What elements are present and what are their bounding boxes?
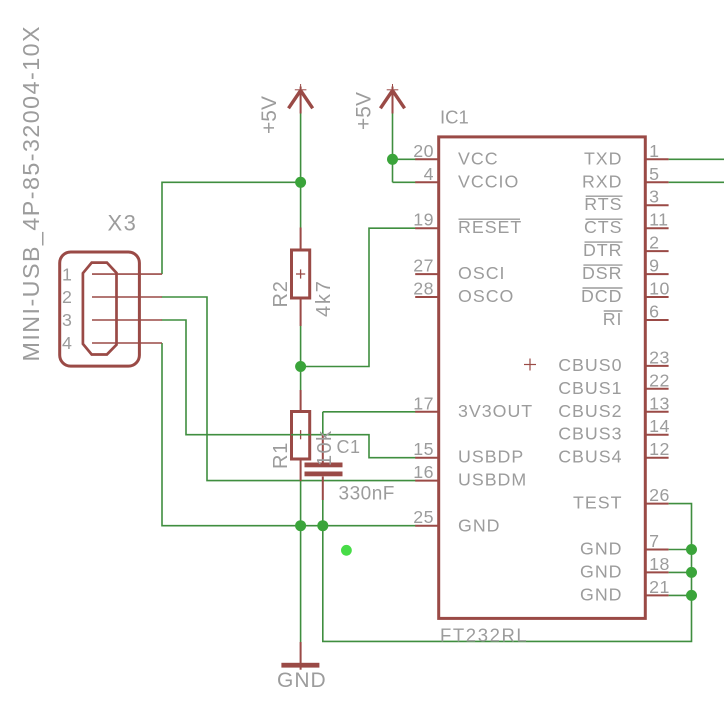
svg-text:17: 17 [413,393,434,413]
svg-text:TXD: TXD [584,148,623,168]
svg-text:USBDP: USBDP [458,447,524,467]
svg-text:26: 26 [649,485,670,505]
svg-text:18: 18 [649,554,670,574]
svg-text:7: 7 [649,531,659,551]
svg-text:3: 3 [62,310,72,330]
svg-text:25: 25 [413,507,434,527]
svg-text:DCD: DCD [581,286,623,306]
svg-text:DTR: DTR [583,240,623,260]
svg-text:2: 2 [62,287,72,307]
svg-text:5: 5 [649,164,659,184]
svg-text:GND: GND [277,669,327,692]
svg-text:USBDM: USBDM [458,470,527,490]
svg-text:DSR: DSR [582,263,623,283]
svg-text:CBUS4: CBUS4 [558,447,622,467]
svg-text:1: 1 [62,264,72,284]
svg-text:1: 1 [649,141,659,161]
svg-text:20: 20 [413,141,434,161]
svg-text:VCC: VCC [458,148,499,168]
svg-text:CBUS3: CBUS3 [558,424,622,444]
svg-text:RESET: RESET [458,217,522,237]
svg-text:RTS: RTS [584,194,622,214]
svg-text:330nF: 330nF [339,484,395,505]
svg-text:14: 14 [649,416,670,436]
svg-text:22: 22 [649,370,670,390]
svg-text:CTS: CTS [584,217,623,237]
svg-text:10: 10 [649,279,670,299]
svg-text:CBUS0: CBUS0 [558,355,622,375]
svg-text:GND: GND [580,539,623,559]
svg-text:VCCIO: VCCIO [458,171,519,191]
svg-text:6: 6 [649,302,659,322]
svg-text:12: 12 [649,439,670,459]
svg-text:IC1: IC1 [440,107,469,128]
svg-text:21: 21 [649,577,670,597]
svg-text:23: 23 [649,347,670,367]
svg-text:10k: 10k [314,430,336,466]
svg-text:GND: GND [580,561,623,581]
svg-text:16: 16 [413,462,434,482]
svg-text:OSCO: OSCO [458,286,514,306]
svg-text:+5V: +5V [353,92,376,130]
svg-text:2: 2 [649,233,659,253]
svg-text:C1: C1 [337,437,361,457]
svg-text:X3: X3 [108,211,138,236]
svg-text:15: 15 [413,439,434,459]
svg-text:TEST: TEST [573,493,622,513]
svg-text:GND: GND [458,516,501,536]
svg-text:9: 9 [649,256,659,276]
svg-text:CBUS2: CBUS2 [558,401,622,421]
svg-text:FT232RL: FT232RL [440,624,528,645]
svg-text:11: 11 [649,210,668,230]
svg-text:3V3OUT: 3V3OUT [458,401,533,421]
svg-text:4: 4 [62,333,72,353]
svg-text:R1: R1 [270,442,292,469]
svg-text:CBUS1: CBUS1 [558,378,622,398]
svg-text:OSCI: OSCI [458,263,505,283]
svg-text:+5V: +5V [258,96,281,134]
svg-text:4: 4 [424,164,434,184]
svg-text:19: 19 [413,210,434,230]
svg-text:3: 3 [649,187,659,207]
svg-text:R2: R2 [270,280,292,307]
svg-text:27: 27 [413,256,434,276]
svg-text:MINI-USB_4P-85-32004-10X: MINI-USB_4P-85-32004-10X [18,25,44,362]
svg-text:4k7: 4k7 [313,279,335,317]
svg-text:GND: GND [580,584,623,604]
svg-text:RXD: RXD [582,171,623,191]
svg-text:RI: RI [603,309,623,329]
svg-text:28: 28 [413,279,434,299]
svg-text:13: 13 [649,393,670,413]
